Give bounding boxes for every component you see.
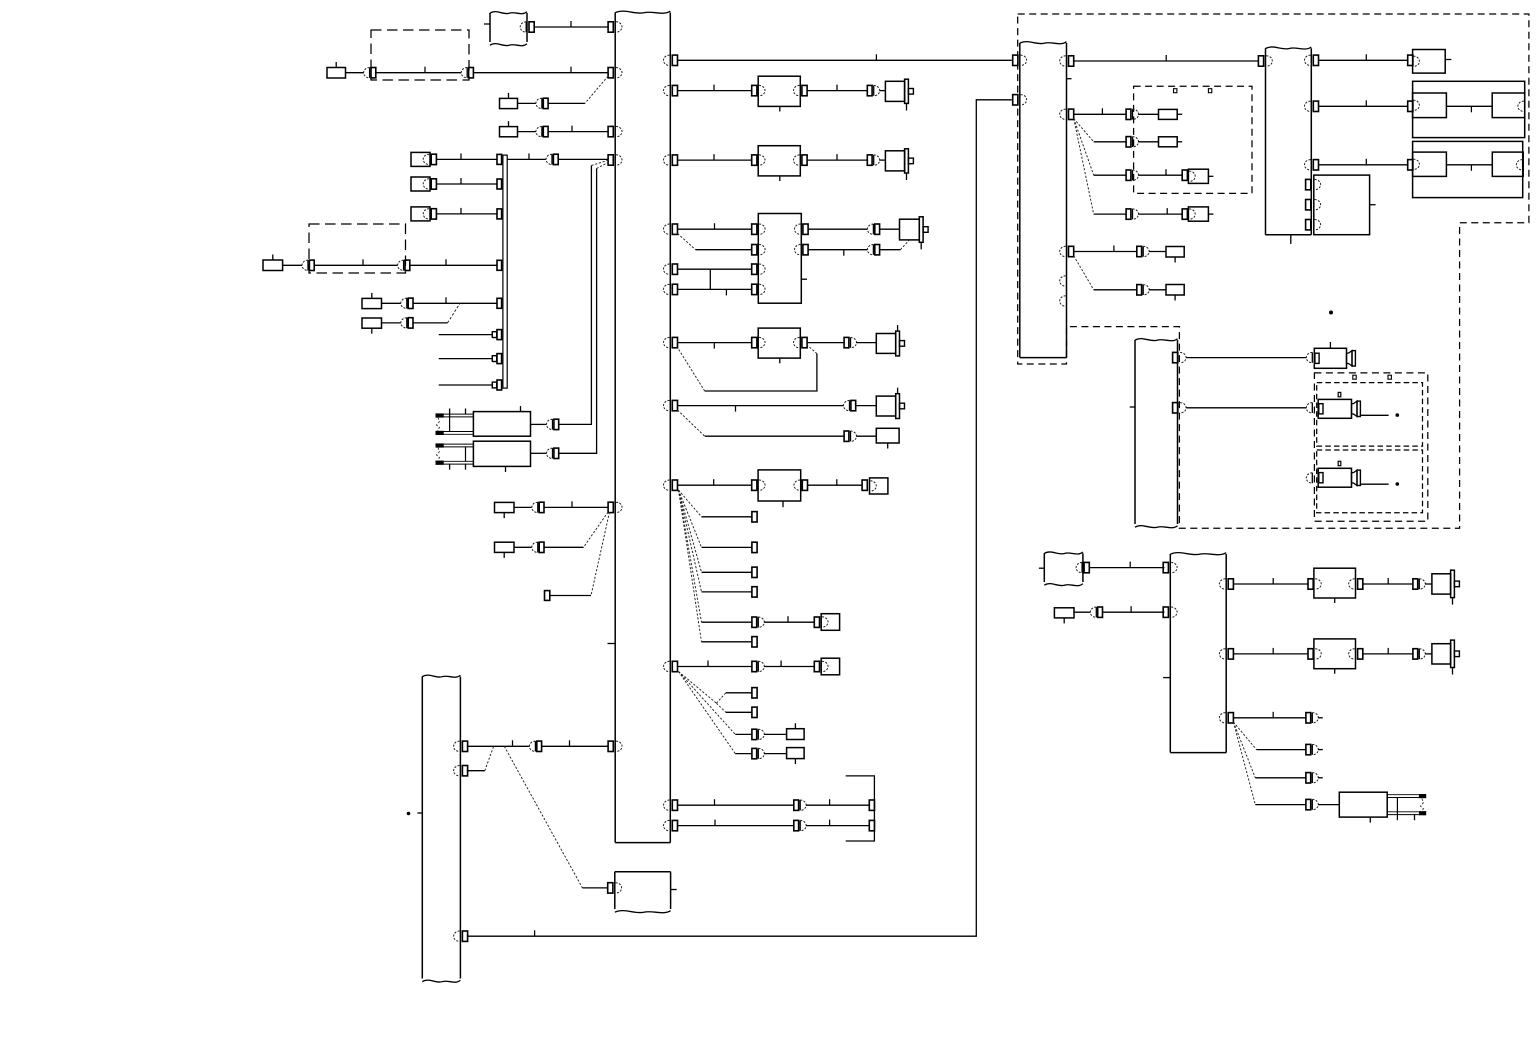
wire tick <box>528 153 530 159</box>
connector pair P28 <box>1126 209 1131 219</box>
dot marker <box>1329 311 1333 315</box>
long wire J1 to J3 y60 <box>678 59 1012 61</box>
wire tick <box>1470 165 1472 171</box>
wire y289 <box>678 288 752 290</box>
wire tick <box>836 479 838 485</box>
wire tick <box>1166 208 1168 214</box>
A2 right unit <box>1492 152 1523 176</box>
J3 pin row y60 <box>1013 55 1018 65</box>
connector pair P27 <box>1126 170 1131 180</box>
fan from J3 y251 <box>1074 256 1094 290</box>
wire in D1 <box>376 72 461 74</box>
terminal pin y516 <box>752 512 757 522</box>
module M4 <box>752 337 757 347</box>
J1 pin row y131 <box>608 126 613 136</box>
wire P18 <box>880 249 901 251</box>
wire tick <box>1165 169 1167 175</box>
J1 pin row y90 <box>664 85 670 95</box>
motor ML1 <box>885 81 904 101</box>
wire H3 out <box>1360 483 1388 485</box>
SP1 pin y303 <box>497 298 502 308</box>
connector pair <box>1413 649 1418 659</box>
wire tick <box>1470 106 1472 112</box>
B7 pin y357 <box>1173 352 1178 362</box>
wire tick <box>445 259 447 265</box>
connector pair P36 <box>1306 773 1311 783</box>
inline terminal <box>492 332 496 338</box>
wire to motor ML4 <box>856 342 876 344</box>
component K5 <box>362 298 382 308</box>
motor load <box>1432 574 1451 594</box>
component K1 <box>327 68 346 79</box>
wire tick <box>571 126 573 132</box>
horn H1 <box>1314 348 1346 368</box>
SP1 pin y265 <box>497 260 502 270</box>
connector pair P1 <box>364 68 370 78</box>
wire y342 <box>678 342 752 344</box>
wire in D2 <box>314 264 397 266</box>
return loop M4 <box>807 345 817 354</box>
J1 pin row y666 <box>664 661 670 671</box>
wire R2 <box>531 452 547 454</box>
wire tick <box>460 178 462 184</box>
wire y160 <box>678 159 752 161</box>
relay R3 with element <box>1339 792 1387 817</box>
wire y60 <box>1319 59 1408 61</box>
wire S1 to SP1 <box>436 158 497 160</box>
connector pair P6 <box>302 260 308 270</box>
A2 link wire <box>1446 164 1492 166</box>
wire M5 out <box>808 484 863 486</box>
B7 pin y407 <box>1173 403 1178 413</box>
connector arc P32 <box>1306 403 1312 413</box>
J5 pin y612 <box>1163 607 1168 617</box>
wire tick <box>829 820 831 826</box>
A1 link wire <box>1446 105 1492 107</box>
branch diagonal y229 to y249 <box>678 234 696 250</box>
wire y90 <box>678 90 752 92</box>
terminal pin T6 <box>1182 209 1187 219</box>
wire R1 <box>531 423 547 425</box>
assembly A1 outer box <box>1413 81 1525 137</box>
wire y229 <box>678 228 752 230</box>
fan wire to y753 <box>679 672 736 754</box>
assembly A2 outer box <box>1413 141 1523 197</box>
wire K1 <box>346 72 365 74</box>
A1 left unit <box>1413 93 1447 118</box>
dot terminal <box>1396 482 1400 486</box>
J3 spare socket y281 <box>1060 276 1066 286</box>
J3 pin row y114 <box>1060 109 1066 119</box>
TB9 stub <box>1208 213 1213 215</box>
J1 pin row y746 <box>608 741 613 751</box>
dashed boundary D5b <box>1317 450 1423 513</box>
wire P29 <box>1149 251 1166 253</box>
J1 pin row y805 <box>664 800 670 810</box>
horn H3 connector arc <box>1306 473 1312 483</box>
component K11 <box>787 748 805 759</box>
wire tick <box>460 208 462 214</box>
relay R1 with element <box>473 412 530 437</box>
terminal pin y712 <box>752 707 757 717</box>
wire tick <box>1101 108 1103 114</box>
wire P24 <box>764 753 787 755</box>
wire K2 <box>518 102 536 104</box>
wire tick <box>571 501 573 507</box>
wire P26 <box>1138 141 1158 143</box>
connector pair P23 <box>752 729 757 739</box>
wire tick <box>713 343 715 349</box>
wire S3 to SP1 <box>436 213 497 215</box>
sensor block B7 <box>1134 340 1136 524</box>
wire <box>1233 653 1308 655</box>
J2 pin row y746 <box>454 741 460 751</box>
stub <box>1318 749 1323 751</box>
horn H2 <box>1318 399 1351 418</box>
wire TB4 to J5 <box>1089 567 1164 569</box>
SP1 pin y213 <box>497 209 502 219</box>
wire K6 <box>382 322 401 324</box>
terminal pin <box>869 820 874 830</box>
row y622 connector <box>752 617 757 627</box>
dashed boundary D1 <box>371 30 469 80</box>
horn H3 <box>1318 468 1351 487</box>
terminal pin y572 <box>752 567 757 577</box>
relay block J5 (lower right bus) <box>1169 554 1171 753</box>
fan from J1 y666 <box>679 672 717 704</box>
stub <box>1318 777 1323 779</box>
connector arc P31 <box>1306 352 1312 362</box>
fan from J5 y717 <box>1233 722 1256 750</box>
connector pair P30 <box>1137 285 1142 295</box>
wire K7 <box>514 506 532 508</box>
motor ML4 <box>876 334 895 354</box>
wire tick <box>836 154 838 160</box>
motor ML3 <box>900 219 920 240</box>
wire y269 <box>678 268 752 270</box>
J4 pin row y106 <box>1305 101 1311 111</box>
dot terminal <box>1396 413 1400 417</box>
J1 pin row y229 <box>664 224 670 234</box>
wire P14 to J1 <box>542 745 609 747</box>
B6 right stub <box>1370 204 1376 206</box>
connector pair <box>794 820 799 830</box>
load K9 <box>876 428 899 443</box>
connector pair P35 <box>1306 744 1311 754</box>
wire K4 <box>283 264 302 266</box>
wire K5 <box>382 302 401 304</box>
J1 pin row y342 <box>664 337 670 347</box>
J3 pin row y251 <box>1060 246 1066 256</box>
TB10 stub <box>1445 59 1451 61</box>
control unit B6 <box>1314 175 1370 235</box>
wire tick <box>570 21 572 27</box>
J1 pin row y72 <box>608 68 613 78</box>
SP1 pin y385 <box>497 380 502 390</box>
connector pair P18 <box>867 245 873 255</box>
module <box>1308 579 1313 589</box>
wire bridge y269-y289 <box>709 269 711 289</box>
stub wire y334 <box>439 334 493 336</box>
wire to motor ML5 <box>856 405 877 407</box>
dashed boundary D5 <box>1314 373 1427 521</box>
wire tick <box>735 406 737 412</box>
terminal box TB5 <box>870 478 888 494</box>
splice bar SP1 (thin vertical bus) <box>503 155 507 388</box>
J1 pin row y60 (right) <box>664 55 670 65</box>
wire tick <box>512 740 514 746</box>
wire P5 to J1 <box>558 158 608 160</box>
wire y249 <box>696 249 752 251</box>
wire <box>1425 583 1432 585</box>
J5 pin row y653 <box>1219 649 1225 659</box>
module TB4 (torn box upper-left of J5) <box>1043 553 1045 582</box>
connector pair P19 <box>844 337 849 347</box>
terminal pin T2 <box>862 480 867 490</box>
connector pair P9 <box>401 318 407 328</box>
terminal pin T5 <box>1182 170 1187 180</box>
wire tick <box>569 740 571 746</box>
module M5 <box>752 480 757 490</box>
wire P22 <box>764 666 814 668</box>
terminal pin T4 <box>814 661 819 671</box>
module TB3 (torn box below J1) <box>614 872 616 909</box>
TB1 left stub <box>484 23 490 25</box>
connector pair P13 <box>532 542 538 552</box>
wire tick <box>714 820 716 826</box>
wire tick <box>843 250 845 256</box>
SP1 pin y184 <box>497 179 502 189</box>
wire tick <box>1165 55 1167 61</box>
component K15 <box>1166 285 1184 296</box>
TB1 output connector <box>520 22 526 32</box>
dashed boundary D2 <box>309 224 406 273</box>
connector pair P22 <box>752 661 757 671</box>
component K13 <box>1159 137 1178 147</box>
wire R1 riser <box>559 166 592 425</box>
connector pair P8 <box>401 298 407 308</box>
J1 pin row y507 <box>608 502 613 512</box>
component K16 <box>1054 608 1074 618</box>
wire tick <box>1272 712 1274 718</box>
A1 right unit <box>1492 93 1525 118</box>
dashed boundary D5a <box>1317 383 1423 447</box>
wire tick <box>713 154 715 160</box>
fan wire to y734 <box>679 672 736 735</box>
component K12 <box>1159 109 1178 119</box>
branch diagonal y405 to y436 <box>678 410 705 436</box>
wire tick <box>1129 562 1131 568</box>
wire P33 to J5 <box>1103 611 1165 613</box>
component K14 <box>1166 247 1184 258</box>
connector pair P15 <box>867 85 872 95</box>
wire to load K9 <box>856 435 876 437</box>
branch diagonal y770 to y746 <box>485 746 494 770</box>
wire tick <box>714 799 716 805</box>
wire <box>806 825 869 827</box>
branch diagonal to ML3 <box>900 241 909 250</box>
K13 stub <box>1177 141 1182 143</box>
branch diagonal to TB3 <box>504 746 582 888</box>
wire <box>806 804 869 806</box>
module M2 <box>752 155 757 165</box>
branch diagonal to pin wire <box>591 512 610 596</box>
stub wire y358 <box>439 358 493 360</box>
wire P2 to J1 <box>473 72 608 74</box>
wire y485 <box>678 484 752 486</box>
wire tick <box>570 67 572 73</box>
J3 right stub <box>1067 78 1072 80</box>
module M3 <box>758 214 801 304</box>
B7 left stub <box>1130 406 1135 408</box>
connector pair P37 <box>1306 799 1311 809</box>
wire T1 <box>550 595 591 597</box>
wire P7 to SP1 <box>410 264 497 266</box>
connector pair P2 <box>461 68 467 78</box>
J4-B6 pin y184 <box>1306 179 1311 189</box>
wire to load <box>1363 653 1413 655</box>
component K3 <box>500 127 518 137</box>
TB4 left stub <box>1039 567 1044 569</box>
J2 pin row y770 <box>454 766 460 776</box>
connector pair P4 <box>536 126 542 136</box>
connector pair P26 <box>1126 137 1131 147</box>
wire tick <box>829 799 831 805</box>
J4-B6 pin y204 <box>1306 200 1311 210</box>
module TB1 (torn box top-left) <box>489 13 491 42</box>
wire to TB3 <box>582 887 608 889</box>
J5 pin row y584 <box>1219 579 1225 589</box>
J1 pin row y289 <box>664 284 670 294</box>
module <box>1308 649 1313 659</box>
switch S1 <box>411 152 430 166</box>
terminal box TB6 <box>821 614 839 631</box>
K12 stub <box>1177 113 1182 115</box>
wire <box>678 804 794 806</box>
junction block J2 (left lower bus) <box>421 677 423 979</box>
wire tick <box>1365 100 1367 106</box>
harness connector block J1 (main bus left) <box>614 13 616 843</box>
connector pair P12 <box>532 502 538 512</box>
dashed boundary D4 <box>1134 86 1252 193</box>
switch S2 <box>411 177 430 191</box>
terminal pin T9 <box>1408 160 1413 170</box>
wire tick <box>1365 54 1367 60</box>
J3 spare socket y301 <box>1060 296 1066 306</box>
wire tick <box>707 661 709 667</box>
wire tick <box>1130 606 1132 612</box>
wire tick <box>460 153 462 159</box>
wire to R3 <box>1318 804 1339 806</box>
component K8 <box>495 542 515 552</box>
dashed system boundary D3 <box>1018 14 1529 528</box>
connector pair P21 <box>844 431 849 441</box>
wire M3 out y249 <box>808 249 867 251</box>
wire M2 to load <box>807 159 867 161</box>
branch diagonal to K2 wire <box>585 76 608 103</box>
wire y106 <box>1319 105 1408 107</box>
wire y622 <box>764 621 814 623</box>
wire P12 to J1 <box>544 506 608 508</box>
component K2 <box>500 98 518 108</box>
J2 pin row y936 <box>454 931 460 941</box>
module M1 <box>752 85 757 95</box>
terminal pin T3 <box>814 617 819 627</box>
terminal pin T7 <box>1408 55 1413 65</box>
connector pair P24 <box>752 748 757 758</box>
branch diagonal K6 to K5 wire <box>448 303 461 323</box>
J5 pin y567 <box>1163 562 1168 572</box>
wire M3 out y229 <box>808 228 867 230</box>
wire tick <box>713 85 715 91</box>
J1 left stub y643 <box>608 643 615 645</box>
wire to motor ML3 <box>880 228 900 230</box>
TB4 output connector <box>1076 562 1082 572</box>
terminal pin y591 <box>752 587 757 597</box>
connector housing bracket <box>846 776 875 841</box>
J1 pin row y27 <box>608 22 613 32</box>
terminal box TB7 <box>821 658 839 675</box>
component K10 <box>787 729 805 740</box>
J5 pin row y717 <box>1219 713 1225 723</box>
terminal box TB8 <box>1188 169 1208 183</box>
connector pair P14 <box>529 741 535 751</box>
terminal pin T8 <box>1408 101 1413 111</box>
J1 pin row y160 (right) <box>664 155 670 165</box>
wire y717 <box>1233 717 1306 719</box>
wire y114 <box>1074 113 1126 115</box>
J1 pin row y160 <box>608 155 613 165</box>
terminal pin <box>869 800 874 810</box>
J2 left stub <box>417 812 422 814</box>
terminal pin y547 <box>752 542 757 552</box>
wire to motor ML1 <box>879 90 885 92</box>
wire K3 <box>518 131 536 133</box>
J3 pin row y100 <box>1013 95 1018 105</box>
fan wires from J1 y485 <box>679 490 702 517</box>
J4 pin row y164 <box>1305 160 1311 170</box>
J2 left dot <box>407 812 411 816</box>
wire P3 <box>548 102 585 104</box>
terminal box TB10 <box>1413 50 1446 74</box>
connector pair P16 <box>867 155 872 165</box>
connector pair P25 <box>1126 109 1131 119</box>
connector pair P10 <box>547 419 553 429</box>
connector pair P17 <box>867 224 873 234</box>
wire tick <box>787 616 789 622</box>
SP1 pin y159 <box>497 154 502 164</box>
J1 pin row y269 <box>664 264 670 274</box>
J4 pin row y60 <box>1258 56 1263 66</box>
long wire J2 to J3 <box>467 100 1012 936</box>
wire P25 <box>1138 113 1158 115</box>
D4 marker squares <box>1174 89 1177 93</box>
component K4 <box>263 260 283 271</box>
wire tick <box>1272 648 1274 654</box>
wire tick <box>780 661 782 667</box>
wire S2 to SP1 <box>436 183 497 185</box>
connector pair <box>794 800 799 810</box>
wire tick <box>1113 246 1115 252</box>
wire y405 <box>678 405 844 407</box>
wire tick <box>1387 648 1389 654</box>
wire y436 <box>705 435 844 437</box>
wire J2 y770 <box>467 770 485 772</box>
wire <box>678 825 794 827</box>
SP1 pin y334 <box>497 330 502 340</box>
SP1 top wire to J1 <box>507 158 546 160</box>
terminal box TB9 <box>1188 207 1208 221</box>
